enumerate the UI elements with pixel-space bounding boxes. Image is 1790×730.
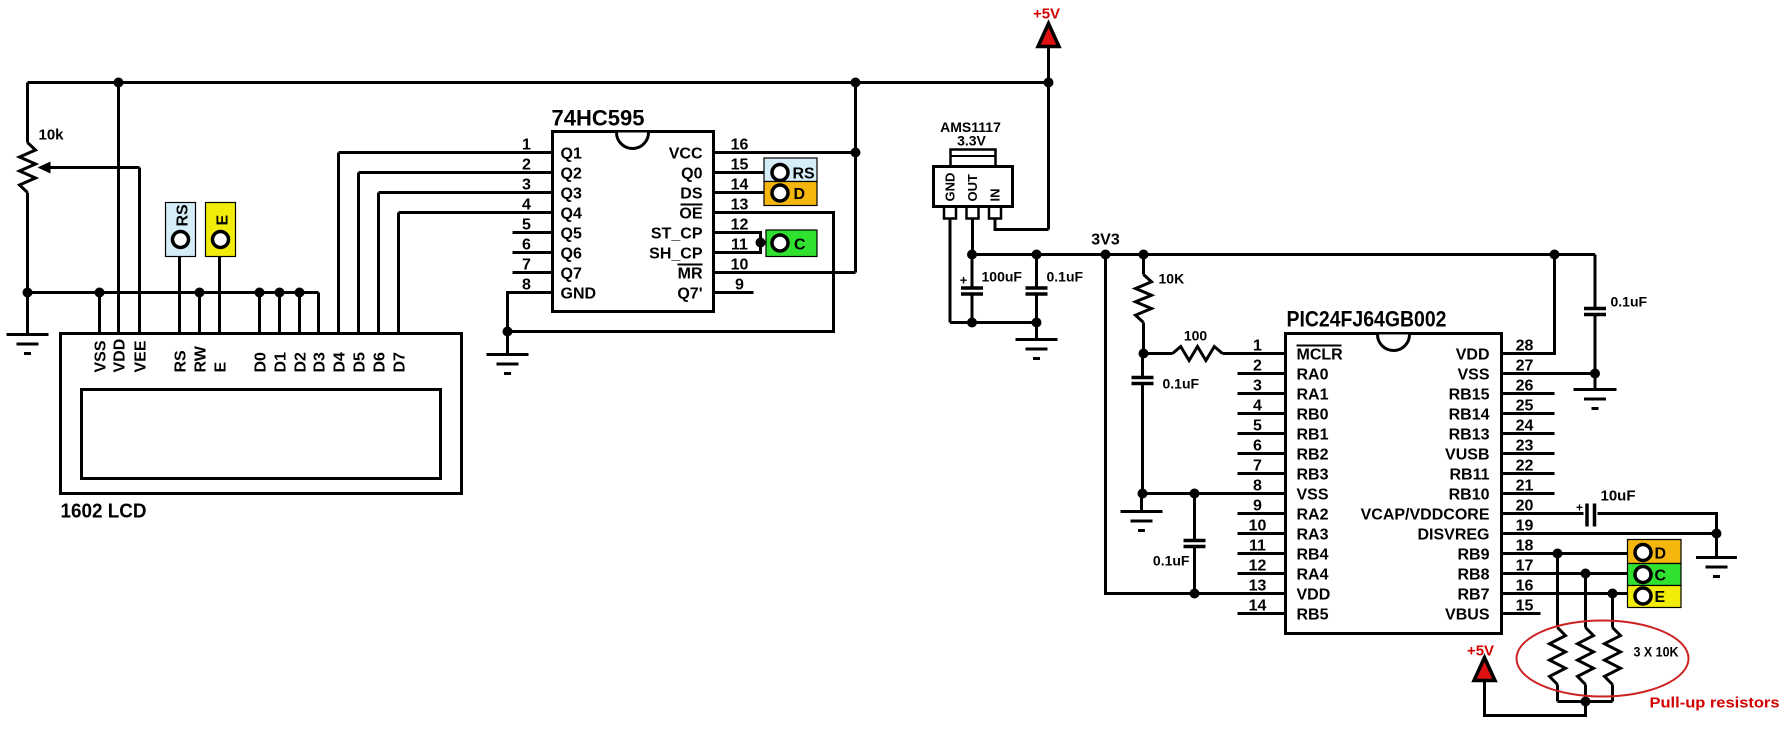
svg-text:SH_CP: SH_CP <box>649 246 703 263</box>
svg-text:10: 10 <box>1249 518 1267 535</box>
svg-text:13: 13 <box>1249 578 1267 595</box>
svg-text:VDD: VDD <box>1297 587 1331 604</box>
svg-text:10K: 10K <box>1159 271 1185 287</box>
svg-text:74HC595: 74HC595 <box>552 106 645 131</box>
svg-text:3 X 10K: 3 X 10K <box>1634 644 1679 660</box>
svg-text:5: 5 <box>522 217 531 234</box>
svg-text:RB5: RB5 <box>1297 607 1329 624</box>
svg-text:RA1: RA1 <box>1297 387 1329 404</box>
svg-text:14: 14 <box>731 177 749 194</box>
svg-text:11: 11 <box>731 237 748 254</box>
svg-text:VCAP/VDDCORE: VCAP/VDDCORE <box>1361 507 1490 524</box>
svg-text:D6: D6 <box>371 352 388 373</box>
svg-text:15: 15 <box>731 157 749 174</box>
svg-text:2: 2 <box>522 157 531 174</box>
svg-text:D1: D1 <box>272 352 289 373</box>
svg-text:RB11: RB11 <box>1449 467 1489 484</box>
svg-text:C: C <box>794 237 806 254</box>
svg-text:GND: GND <box>561 286 597 303</box>
svg-text:8: 8 <box>522 277 531 294</box>
svg-text:VEE: VEE <box>132 340 149 372</box>
svg-text:24: 24 <box>1516 418 1534 435</box>
svg-text:D7: D7 <box>391 352 408 373</box>
svg-text:VDD: VDD <box>111 339 128 373</box>
svg-text:RB13: RB13 <box>1449 427 1490 444</box>
svg-text:17: 17 <box>1516 558 1534 575</box>
svg-text:3.3V: 3.3V <box>957 133 986 149</box>
svg-text:Pull-up resistors: Pull-up resistors <box>1650 695 1780 712</box>
svg-text:MR: MR <box>678 266 703 283</box>
svg-text:28: 28 <box>1516 338 1534 355</box>
svg-text:E: E <box>1655 589 1666 606</box>
svg-text:7: 7 <box>522 257 531 274</box>
svg-text:GND: GND <box>943 173 958 202</box>
svg-text:Q7': Q7' <box>677 286 702 303</box>
svg-text:Q4: Q4 <box>561 206 582 223</box>
svg-text:VCC: VCC <box>669 146 703 163</box>
svg-text:11: 11 <box>1249 538 1266 555</box>
svg-text:Q6: Q6 <box>561 246 582 263</box>
svg-text:5: 5 <box>1253 418 1262 435</box>
svg-text:RA3: RA3 <box>1297 527 1329 544</box>
svg-text:Q0: Q0 <box>681 166 702 183</box>
svg-text:IN: IN <box>988 189 1003 202</box>
svg-text:14: 14 <box>1249 598 1267 615</box>
svg-text:12: 12 <box>1249 558 1267 575</box>
svg-text:3V3: 3V3 <box>1091 232 1120 249</box>
svg-text:C: C <box>1655 568 1667 585</box>
svg-text:3: 3 <box>522 177 531 194</box>
svg-text:RA4: RA4 <box>1297 567 1329 584</box>
svg-text:6: 6 <box>1253 438 1262 455</box>
svg-text:23: 23 <box>1516 438 1534 455</box>
svg-text:6: 6 <box>522 237 531 254</box>
svg-text:9: 9 <box>1253 498 1262 515</box>
svg-text:20: 20 <box>1516 498 1534 515</box>
svg-text:RB8: RB8 <box>1457 567 1489 584</box>
svg-text:4: 4 <box>522 197 531 214</box>
svg-text:3: 3 <box>1253 378 1262 395</box>
svg-text:RB7: RB7 <box>1457 587 1489 604</box>
svg-text:13: 13 <box>731 197 749 214</box>
svg-text:D0: D0 <box>252 352 269 373</box>
svg-text:15: 15 <box>1516 598 1534 615</box>
svg-text:16: 16 <box>731 137 749 154</box>
svg-text:18: 18 <box>1516 538 1534 555</box>
svg-text:+5V: +5V <box>1467 643 1494 660</box>
svg-text:9: 9 <box>735 277 744 294</box>
svg-text:4: 4 <box>1253 398 1262 415</box>
svg-text:26: 26 <box>1516 378 1534 395</box>
svg-text:VSS: VSS <box>92 340 109 372</box>
svg-text:Q5: Q5 <box>561 226 582 243</box>
svg-text:1602 LCD: 1602 LCD <box>61 501 147 523</box>
svg-text:OE: OE <box>679 206 702 223</box>
svg-text:Q3: Q3 <box>561 186 582 203</box>
svg-text:RW: RW <box>192 345 209 372</box>
svg-text:VSS: VSS <box>1297 487 1329 504</box>
svg-text:RB14: RB14 <box>1449 407 1490 424</box>
svg-text:25: 25 <box>1516 398 1534 415</box>
svg-text:19: 19 <box>1516 518 1534 535</box>
svg-text:RA0: RA0 <box>1297 367 1329 384</box>
svg-text:0.1uF: 0.1uF <box>1047 269 1084 285</box>
svg-text:1: 1 <box>522 137 531 154</box>
svg-text:16: 16 <box>1516 578 1534 595</box>
svg-text:D5: D5 <box>351 352 368 373</box>
svg-text:+: + <box>960 273 968 288</box>
svg-text:DISVREG: DISVREG <box>1417 527 1489 544</box>
svg-text:10uF: 10uF <box>1601 488 1636 505</box>
svg-text:RB3: RB3 <box>1297 467 1329 484</box>
svg-text:12: 12 <box>731 217 749 234</box>
svg-text:0.1uF: 0.1uF <box>1611 294 1648 310</box>
svg-text:RS: RS <box>793 166 816 183</box>
svg-text:7: 7 <box>1253 458 1262 475</box>
svg-text:RB1: RB1 <box>1297 427 1329 444</box>
svg-text:ST_CP: ST_CP <box>651 226 703 243</box>
svg-text:100uF: 100uF <box>982 269 1023 285</box>
svg-text:10: 10 <box>731 257 749 274</box>
svg-text:8: 8 <box>1253 478 1262 495</box>
svg-text:VSS: VSS <box>1457 367 1489 384</box>
svg-text:Q2: Q2 <box>561 166 582 183</box>
svg-text:E: E <box>214 215 231 226</box>
svg-text:1: 1 <box>1253 338 1262 355</box>
svg-text:+: + <box>1576 501 1583 515</box>
svg-text:D4: D4 <box>331 352 348 373</box>
svg-text:RS: RS <box>174 204 191 227</box>
svg-text:VBUS: VBUS <box>1445 607 1490 624</box>
svg-text:D2: D2 <box>292 352 309 373</box>
svg-text:27: 27 <box>1516 358 1534 375</box>
svg-text:22: 22 <box>1516 458 1534 475</box>
svg-text:RB4: RB4 <box>1297 547 1329 564</box>
svg-text:RB9: RB9 <box>1457 547 1489 564</box>
svg-text:D: D <box>794 186 806 203</box>
svg-text:PIC24FJ64GB002: PIC24FJ64GB002 <box>1287 307 1447 332</box>
svg-text:21: 21 <box>1516 478 1534 495</box>
svg-text:RB0: RB0 <box>1297 407 1329 424</box>
svg-text:DS: DS <box>680 186 703 203</box>
svg-text:E: E <box>212 362 229 373</box>
svg-text:RB15: RB15 <box>1449 387 1490 404</box>
svg-text:100: 100 <box>1184 328 1208 344</box>
svg-text:2: 2 <box>1253 358 1262 375</box>
svg-text:10k: 10k <box>39 127 65 144</box>
svg-text:+5V: +5V <box>1033 6 1060 23</box>
svg-text:MCLR: MCLR <box>1297 347 1344 364</box>
svg-text:Q7: Q7 <box>561 266 582 283</box>
svg-text:0.1uF: 0.1uF <box>1163 376 1200 392</box>
svg-text:RA2: RA2 <box>1297 507 1329 524</box>
svg-text:0.1uF: 0.1uF <box>1153 553 1190 569</box>
svg-text:Q1: Q1 <box>561 146 582 163</box>
svg-text:VUSB: VUSB <box>1445 447 1489 464</box>
svg-text:D3: D3 <box>311 352 328 373</box>
svg-text:RB2: RB2 <box>1297 447 1329 464</box>
svg-text:RB10: RB10 <box>1449 487 1490 504</box>
svg-text:VDD: VDD <box>1456 347 1490 364</box>
svg-text:OUT: OUT <box>965 174 980 202</box>
svg-text:D: D <box>1655 546 1667 563</box>
svg-text:RS: RS <box>172 350 189 373</box>
